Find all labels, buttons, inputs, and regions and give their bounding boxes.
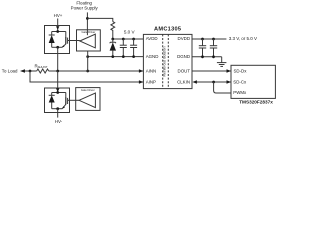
- node Q2 emitter junction: [56, 107, 59, 110]
- wire Q1 emitter down to shunt line: [57, 47, 59, 71]
- arrow into Q1: [56, 26, 59, 30]
- MCU U3 TMS320F2837x box: [231, 65, 275, 98]
- node floating power supply label: [71, 1, 99, 11]
- gate driver U4 (bottom) box: [76, 88, 100, 111]
- resistor RSHUNT: [37, 69, 49, 73]
- transistor Q2 (low-side IGBT with diode) box: [45, 88, 70, 113]
- arrow into Q2: [56, 88, 59, 92]
- svg-text:5.0 V: 5.0 V: [124, 30, 136, 35]
- op-amp triangle U4: [79, 93, 95, 108]
- wire Q2 top node: [52, 92, 66, 94]
- diode D3 (Q2 freewheel): [51, 93, 53, 96]
- svg-text:SHUNT: SHUNT: [38, 65, 48, 69]
- svg-text:PWMx: PWMx: [233, 90, 247, 95]
- arrow into AINP: [139, 80, 144, 84]
- node pin DGND: [177, 54, 190, 59]
- node phase junction at driver: [86, 70, 89, 73]
- resistor R1: [111, 22, 115, 39]
- node pin DOUT: [178, 68, 191, 73]
- node pin CLKIN: [177, 79, 190, 84]
- svg-text:CLKIN: CLKIN: [177, 79, 190, 84]
- capacitor C3: [202, 39, 204, 46]
- svg-text:3.3 V, or 5.0 V: 3.3 V, or 5.0 V: [229, 36, 257, 41]
- wire Q2 bottom node: [52, 108, 63, 110]
- wire phase down to Q2: [57, 71, 59, 92]
- node pin PWMx: [233, 90, 247, 95]
- wire DGND rail: [192, 56, 222, 58]
- svg-text:AGND: AGND: [146, 54, 159, 59]
- zener diode D2: [112, 39, 114, 42]
- node pin SD-Dx: [234, 68, 248, 73]
- node HV- label: [55, 119, 63, 124]
- wire clock SD-Cx to CLKIN: [196, 81, 231, 83]
- node Q2 top junction: [56, 91, 59, 94]
- wire AGND rail: [88, 56, 144, 58]
- wire gate Q2 to driver: [70, 99, 80, 101]
- svg-text:DVDD: DVDD: [178, 36, 190, 41]
- wire load line: [25, 70, 37, 72]
- svg-text:Reinforced Isolation: Reinforced Isolation: [163, 46, 167, 76]
- wire AINP sense: [30, 71, 143, 82]
- node Q1 emitter junction: [56, 46, 59, 49]
- wire DOUT to SD-Dx: [192, 70, 231, 72]
- wire floating supply into U2: [86, 12, 88, 35]
- wire Q1 top node: [52, 31, 66, 33]
- node floating supply junction: [86, 17, 89, 20]
- node pin AGND: [146, 54, 159, 59]
- transistor Q1 (high-side IGBT with diode) box: [45, 26, 70, 54]
- node pin AVDD: [146, 36, 158, 41]
- arrow To Load: [20, 69, 25, 73]
- node HV+ label: [54, 13, 63, 18]
- svg-text:HV-: HV-: [55, 119, 63, 124]
- node rail junctions: [111, 38, 114, 41]
- svg-text:Gate Driver: Gate Driver: [82, 30, 96, 34]
- svg-text:SD-Dx: SD-Dx: [234, 68, 248, 73]
- node pin SD-Cx: [233, 79, 247, 84]
- capacitor C4: [213, 39, 215, 46]
- op-amp U1 AMC1305 box: [143, 34, 192, 88]
- arrow into CLKIN: [192, 80, 197, 84]
- node clock junction: [212, 81, 215, 84]
- node pin AINP: [146, 79, 156, 84]
- arrow into AINN: [139, 69, 144, 73]
- wire floating supply to resistor: [87, 18, 112, 21]
- svg-text:AINP: AINP: [146, 79, 156, 84]
- diode D1 (Q1 freewheel): [51, 32, 53, 36]
- wire shunt to phase: [49, 70, 144, 72]
- svg-text:Gate Driver: Gate Driver: [81, 88, 95, 92]
- ground symbol: [221, 57, 223, 63]
- op-amp triangle U2: [80, 34, 96, 48]
- node DGND junctions: [201, 55, 204, 58]
- wire Q2 emitter to HV-: [57, 109, 59, 118]
- wire gate Q1 to driver: [70, 40, 80, 42]
- wire PWMx hook: [214, 82, 231, 93]
- wire Q1 bottom node: [52, 46, 63, 48]
- IGBT Q2 body: [65, 93, 67, 98]
- capacitor C2: [133, 39, 135, 45]
- svg-text:AVDD: AVDD: [146, 36, 158, 41]
- node 5.0 V label: [124, 30, 136, 35]
- capacitor C1: [122, 39, 124, 45]
- wire U2 common down to phase node: [87, 51, 89, 71]
- wire HV+ to Q1: [57, 19, 59, 32]
- node shunt left junction: [29, 70, 32, 73]
- isolation barrier dashed lines: [162, 34, 164, 88]
- gate driver U2 (top) box: [77, 30, 101, 51]
- wire DVDD rail: [192, 38, 226, 40]
- svg-text:DOUT: DOUT: [178, 68, 191, 73]
- svg-text:AMC1305: AMC1305: [154, 27, 181, 33]
- svg-text:AINN: AINN: [146, 68, 157, 73]
- svg-text:HV+: HV+: [54, 13, 63, 18]
- IGBT Q1 body: [65, 32, 67, 38]
- node pin AINN: [146, 68, 157, 73]
- wire 5.0V rail: [113, 38, 144, 40]
- svg-text:Power Supply: Power Supply: [71, 5, 99, 10]
- node DVDD junctions: [201, 38, 204, 41]
- node AGND junctions: [111, 55, 114, 58]
- node pin DVDD: [178, 36, 190, 41]
- node shunt right junction: [56, 70, 59, 73]
- svg-text:TMS320F2837x: TMS320F2837x: [239, 100, 273, 105]
- svg-text:SD-Cx: SD-Cx: [233, 79, 247, 84]
- svg-text:DGND: DGND: [177, 54, 190, 59]
- node Q1 top junction: [56, 30, 59, 33]
- node To Load label: [2, 68, 18, 73]
- svg-text:To Load: To Load: [2, 68, 18, 73]
- arrow into SD-Dx: [227, 69, 232, 73]
- arrow into SD-Cx: [227, 80, 232, 84]
